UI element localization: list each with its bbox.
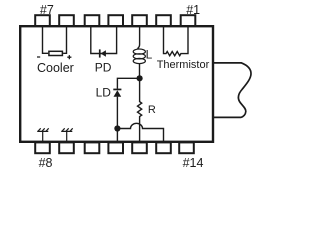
svg-text:Cooler: Cooler [37, 61, 74, 75]
svg-text:#7: #7 [40, 3, 54, 17]
svg-text:LD: LD [96, 86, 112, 100]
svg-text:PD: PD [95, 61, 112, 75]
svg-text:#8: #8 [39, 156, 53, 167]
svg-text:R: R [148, 104, 156, 116]
svg-text:#14: #14 [183, 156, 204, 167]
svg-text:#1: #1 [186, 3, 200, 17]
svg-text:L: L [146, 48, 153, 62]
svg-text:Thermistor: Thermistor [157, 59, 210, 71]
